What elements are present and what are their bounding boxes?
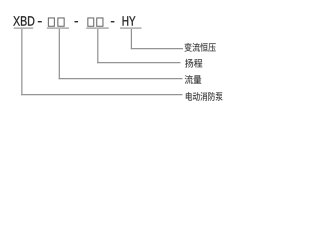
wire horizontal to label 扬程 [97, 62, 180, 63]
box field 1b [58, 18, 64, 26]
box field 2a [88, 18, 94, 26]
label 流量 (flow rate) [185, 75, 202, 84]
wire vertical from boxes 2 [97, 29, 98, 63]
wire horizontal to label 变流恒压 [131, 48, 183, 49]
dash 3 [111, 21, 115, 22]
dash 1 [38, 21, 42, 22]
wire horizontal to label 流量 [59, 78, 183, 79]
label XBD (pump series code) [13, 16, 34, 25]
label 扬程 (head) [185, 59, 202, 68]
underline under boxes 1 [47, 28, 69, 29]
underline under boxes 2 [86, 28, 109, 29]
wire vertical from XBD [21, 29, 22, 95]
underline under XBD [14, 28, 34, 29]
box field 1a [48, 18, 54, 26]
label 变流恒压 (variable-flow constant-pressure) [185, 43, 216, 52]
wire vertical from boxes 1 [59, 29, 60, 79]
wire horizontal to label 电动消防泵 [21, 94, 182, 95]
wire vertical from HY [131, 29, 132, 49]
underline under HY [120, 28, 142, 29]
label HY (constant-pressure suffix) [123, 16, 136, 25]
dash 2 [75, 21, 79, 22]
label 电动消防泵 (electric fire pump) [186, 92, 223, 101]
box field 2b [97, 18, 103, 26]
